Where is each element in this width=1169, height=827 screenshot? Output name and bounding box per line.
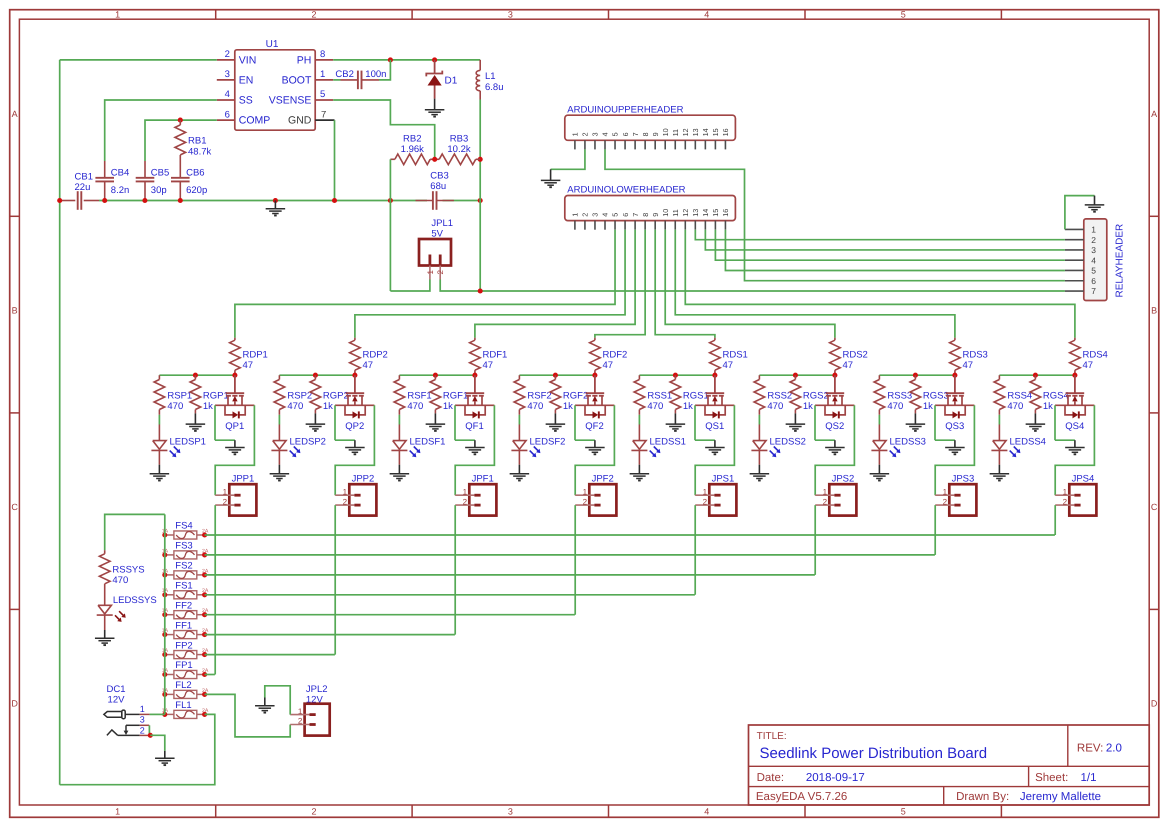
svg-text:LEDSS4: LEDSS4 xyxy=(1010,437,1046,448)
svg-text:RDF2: RDF2 xyxy=(603,350,628,361)
JPS2 pin 1 xyxy=(815,494,834,496)
svg-text:2: 2 xyxy=(223,497,228,506)
svg-text:Date:: Date: xyxy=(757,772,785,784)
wire fuse FS2 output xyxy=(205,574,815,576)
fuse FF1 xyxy=(165,634,174,636)
wire fuse FP2 output xyxy=(205,654,335,656)
wire QS4 source to ground xyxy=(1054,405,1056,440)
ground JPL2 xyxy=(264,698,266,706)
wire header pin8 to RDF2 xyxy=(595,230,645,338)
svg-text:1k: 1k xyxy=(683,401,693,412)
header pin 9 xyxy=(654,140,656,149)
node fuse FP2 pin2 xyxy=(202,652,207,657)
ground LEDSF2 xyxy=(518,465,520,474)
node PH-CB2 junction xyxy=(388,57,393,62)
svg-text:47: 47 xyxy=(1083,360,1094,371)
wire relay pin1 to ground xyxy=(1065,196,1095,230)
transistor QF2 NMOS xyxy=(594,375,596,393)
U1 pin 8 PH xyxy=(315,59,333,61)
ground RGS3 xyxy=(914,413,916,424)
header pin 12 xyxy=(684,140,686,149)
wire QP1 drain to JPP1 pin1 xyxy=(215,405,254,495)
svg-text:DC1: DC1 xyxy=(106,684,125,695)
resistor RSS2 470 xyxy=(758,375,760,379)
wire BOOT to CB2 xyxy=(333,79,340,81)
ground QF1 source xyxy=(474,440,476,447)
svg-text:10.2k: 10.2k xyxy=(447,144,470,155)
JPS3 pin 2 xyxy=(935,504,954,506)
svg-text:4: 4 xyxy=(225,89,230,100)
svg-text:LEDSP1: LEDSP1 xyxy=(170,437,206,448)
header pin 2 xyxy=(584,221,586,230)
header pin 4 xyxy=(604,221,606,230)
svg-text:12: 12 xyxy=(681,209,690,217)
U1 pin 2 VIN xyxy=(217,59,235,61)
svg-text:Drawn By:: Drawn By: xyxy=(956,791,1009,803)
svg-text:470: 470 xyxy=(112,575,128,586)
connector ARDUINOUPPERHEADER xyxy=(565,115,736,140)
svg-text:RGP2: RGP2 xyxy=(323,391,349,402)
LED LEDSF1 xyxy=(393,441,406,450)
svg-text:12V: 12V xyxy=(108,695,126,706)
wire VSENSE to divider xyxy=(333,100,435,159)
svg-text:8.2n: 8.2n xyxy=(111,185,130,196)
transistor QP2 NMOS xyxy=(354,375,356,393)
node fuse FS4 pin2 xyxy=(202,532,207,537)
node fuse FS1 pin2 xyxy=(202,592,207,597)
svg-text:22u: 22u xyxy=(75,182,91,193)
svg-text:3: 3 xyxy=(140,715,145,725)
svg-text:5: 5 xyxy=(901,806,906,816)
svg-text:QS2: QS2 xyxy=(825,421,844,432)
svg-text:Jeremy Mallette: Jeremy Mallette xyxy=(1020,791,1101,803)
header pin 3 xyxy=(594,140,596,149)
fuse FP1 xyxy=(165,674,174,676)
resistor RB3 10.2k xyxy=(439,154,476,165)
svg-text:FP2: FP2 xyxy=(175,640,192,651)
svg-text:RB2: RB2 xyxy=(403,134,421,145)
node gate-RG junction xyxy=(673,373,678,378)
LED LEDSS4 xyxy=(993,441,1006,450)
ground RGS2 xyxy=(794,413,796,424)
svg-text:13: 13 xyxy=(691,209,700,217)
transistor QF1 NMOS xyxy=(474,375,476,393)
wire RSS1 to LEDSS1 xyxy=(638,415,640,425)
svg-text:2: 2 xyxy=(225,49,230,60)
svg-text:48.7k: 48.7k xyxy=(188,146,211,157)
svg-text:A: A xyxy=(12,109,18,119)
wire COMP to CB5 xyxy=(145,120,217,161)
svg-text:5: 5 xyxy=(611,132,620,136)
node fuse FS2 pin2 xyxy=(202,572,207,577)
svg-text:47: 47 xyxy=(243,360,254,371)
wire header pin12 to RDS4 xyxy=(685,230,1075,338)
LED LEDSP2 xyxy=(273,441,286,450)
JPF2 pin 2 xyxy=(575,504,594,506)
wire VIN xyxy=(60,59,217,61)
svg-text:LEDSF2: LEDSF2 xyxy=(530,437,566,448)
ground bus symbol xyxy=(274,201,276,209)
ground LEDSP2 xyxy=(278,465,280,474)
wire fuse FS4 output xyxy=(205,534,1055,536)
LED LEDSF2 xyxy=(513,441,526,450)
wire fuse FL2 to JPL2 xyxy=(205,694,291,737)
svg-text:2018-09-17: 2018-09-17 xyxy=(806,772,865,784)
wire QP2 source to ground xyxy=(334,405,336,440)
JPL2 pin 1 xyxy=(290,714,309,716)
svg-text:FS1: FS1 xyxy=(175,581,192,592)
resistor RSSYS 470 xyxy=(104,550,106,554)
JPL1 pin 1 xyxy=(428,255,431,266)
JPP2 pin 2 xyxy=(335,504,354,506)
svg-text:2: 2 xyxy=(1091,235,1096,245)
wire JPL1 pin2 to 5V line xyxy=(440,280,480,292)
svg-text:FS4: FS4 xyxy=(175,521,192,532)
svg-text:4: 4 xyxy=(704,9,709,19)
ground relay header xyxy=(1094,196,1096,205)
DC1 pin 2 sleeve xyxy=(107,730,118,736)
wire LEDSP2 cathode xyxy=(278,450,280,464)
svg-text:1: 1 xyxy=(571,132,580,136)
svg-text:7: 7 xyxy=(1091,286,1096,296)
svg-text:VIN: VIN xyxy=(239,55,257,67)
svg-text:RSSYS: RSSYS xyxy=(112,565,144,576)
resistor RGS2 1k xyxy=(794,375,796,379)
svg-text:RGF2: RGF2 xyxy=(563,391,588,402)
svg-text:2: 2 xyxy=(463,497,468,506)
wire JPL1 pin1 to gnd line xyxy=(390,280,430,292)
transistor QP1 NMOS xyxy=(234,375,236,393)
svg-text:JPL1: JPL1 xyxy=(431,218,453,229)
header pin 10 xyxy=(664,221,666,230)
svg-text:1: 1 xyxy=(140,704,145,714)
header pin 1 xyxy=(574,221,576,230)
resistor RDF1 47 xyxy=(474,338,476,341)
ground QF2 source xyxy=(594,440,596,447)
node PH-D1 junction xyxy=(432,57,437,62)
header pin 14 xyxy=(704,140,706,149)
wire header pin7 to RDF1 xyxy=(475,230,635,338)
svg-text:1k: 1k xyxy=(803,401,813,412)
ground QS3 source xyxy=(954,440,956,447)
svg-text:15: 15 xyxy=(711,128,720,136)
ground RGS4 xyxy=(1034,413,1036,424)
svg-text:8: 8 xyxy=(320,49,325,60)
frame row ticks left/right xyxy=(10,215,20,217)
svg-text:1k: 1k xyxy=(1043,401,1053,412)
RELAYHEADER pin 7 xyxy=(1065,290,1084,292)
wire JPS3 pin2 to fuse xyxy=(934,505,936,555)
svg-text:QP2: QP2 xyxy=(345,421,364,432)
svg-text:11: 11 xyxy=(671,129,680,136)
svg-text:A: A xyxy=(1151,109,1157,119)
wire header pin9 to RDS1 xyxy=(655,230,715,338)
svg-text:16: 16 xyxy=(721,209,730,217)
svg-text:C: C xyxy=(1151,502,1158,512)
node fuse FF2 pin1 xyxy=(162,612,167,617)
ground LEDSS3 xyxy=(878,465,880,474)
svg-text:6: 6 xyxy=(225,109,230,120)
svg-text:PH: PH xyxy=(297,55,312,67)
svg-text:LEDSF1: LEDSF1 xyxy=(410,437,446,448)
svg-text:47: 47 xyxy=(603,360,614,371)
header pin 6 xyxy=(624,221,626,230)
svg-text:1.96k: 1.96k xyxy=(401,144,424,155)
U1 pin 1 BOOT xyxy=(315,79,333,81)
svg-text:4: 4 xyxy=(1091,255,1096,265)
svg-text:1: 1 xyxy=(115,9,120,19)
wire DC1 pin1 to fuse column xyxy=(150,713,165,715)
ground RGS1 xyxy=(674,413,676,424)
svg-text:47: 47 xyxy=(843,360,854,371)
svg-text:RSP2: RSP2 xyxy=(287,391,312,402)
fuse FP2 xyxy=(165,654,174,656)
wire lower header pin14 to relay pin3 xyxy=(705,230,1065,250)
ground upper header xyxy=(550,169,552,180)
svg-text:2: 2 xyxy=(703,497,708,506)
node fuse FP2 pin1 xyxy=(162,652,167,657)
svg-text:2: 2 xyxy=(343,497,348,506)
svg-text:EN: EN xyxy=(239,75,254,87)
svg-text:1: 1 xyxy=(115,806,120,816)
svg-text:1/1: 1/1 xyxy=(1081,772,1097,784)
resistor RDP1 47 xyxy=(234,338,236,341)
header pin 3 xyxy=(594,221,596,230)
resistor RDS1 47 xyxy=(714,338,716,341)
svg-text:SS: SS xyxy=(239,95,253,107)
wire lower header pin15 to relay pin4 xyxy=(715,230,1065,261)
node gate-RD junction xyxy=(592,373,597,378)
wire fuse FP1 output xyxy=(205,674,215,676)
node gate-RG junction xyxy=(193,373,198,378)
svg-text:EasyEDA V5.7.26: EasyEDA V5.7.26 xyxy=(756,791,847,803)
svg-text:RB1: RB1 xyxy=(188,136,206,147)
wire 12V rail left vertical xyxy=(59,60,61,785)
transistor QS4 NMOS xyxy=(1074,375,1076,393)
svg-text:U1: U1 xyxy=(266,39,279,50)
svg-text:ARDUINOUPPERHEADER: ARDUINOUPPERHEADER xyxy=(567,104,683,115)
svg-text:8: 8 xyxy=(641,132,650,136)
capacitor CB3 68u xyxy=(416,200,433,202)
wire RB2 to ground bus and JPL1 gnd xyxy=(389,159,391,200)
resistor RSF1 470 xyxy=(398,375,400,379)
svg-text:LEDSS1: LEDSS1 xyxy=(650,437,686,448)
svg-text:5: 5 xyxy=(320,89,325,100)
resistor RDS2 47 xyxy=(834,338,836,341)
svg-text:RDF1: RDF1 xyxy=(483,350,508,361)
header pin 7 xyxy=(634,140,636,149)
svg-text:1k: 1k xyxy=(323,401,333,412)
header pin 8 xyxy=(644,221,646,230)
wire QS1 source to ground xyxy=(694,405,696,440)
wire gate bus QP1 xyxy=(159,374,235,376)
resistor RSP2 470 xyxy=(278,375,280,379)
svg-text:D: D xyxy=(1151,698,1158,708)
wire RSS4 to LEDSS4 xyxy=(998,415,1000,425)
node fuse FP1 pin1 xyxy=(162,672,167,677)
svg-text:16: 16 xyxy=(721,128,730,136)
svg-text:1: 1 xyxy=(703,487,708,496)
svg-text:2: 2 xyxy=(581,132,590,136)
node fuse FL1 pin1 xyxy=(162,712,167,717)
wire JPS4 pin2 to fuse xyxy=(1054,505,1056,535)
svg-text:FL2: FL2 xyxy=(175,680,191,691)
wire QS2 source to ground xyxy=(814,405,816,440)
capacitor CB1 22u xyxy=(60,200,76,202)
svg-text:B: B xyxy=(12,306,18,316)
LED LEDSP1 xyxy=(153,441,166,450)
svg-text:470: 470 xyxy=(647,401,663,412)
LED LEDSS2 xyxy=(753,441,766,450)
ground LEDSP1 xyxy=(158,465,160,474)
svg-text:FL1: FL1 xyxy=(175,700,191,711)
wire RSF1 to LEDSF1 xyxy=(398,415,400,425)
U1 pin 7 GND xyxy=(315,119,334,121)
wire DC1 pin2 to ground xyxy=(150,735,165,751)
svg-text:8: 8 xyxy=(641,213,650,217)
node ground bus junction xyxy=(142,198,147,203)
svg-text:1: 1 xyxy=(1091,225,1096,235)
svg-text:RSS1: RSS1 xyxy=(647,391,672,402)
svg-text:3: 3 xyxy=(225,69,230,80)
svg-text:2: 2 xyxy=(583,497,588,506)
wire 5V output rail xyxy=(479,100,481,292)
wire header pin10 to RDS2 xyxy=(665,230,835,338)
U1 pin 6 COMP xyxy=(217,119,235,121)
svg-text:470: 470 xyxy=(407,401,423,412)
resistor RGF1 1k xyxy=(434,375,436,379)
svg-text:4: 4 xyxy=(601,213,610,217)
header pin 12 xyxy=(684,221,686,230)
svg-text:1: 1 xyxy=(223,487,228,496)
wire lower header pin13 to relay pin2 xyxy=(695,230,1065,240)
wire QP2 drain to JPP2 pin1 xyxy=(335,405,374,495)
svg-text:47: 47 xyxy=(723,360,734,371)
wire gate bus QF1 xyxy=(399,374,475,376)
transistor QS2 NMOS xyxy=(834,375,836,393)
svg-text:68u: 68u xyxy=(430,181,446,192)
svg-text:6: 6 xyxy=(621,132,630,136)
header pin 7 xyxy=(634,221,636,230)
U1 pin 4 SS xyxy=(217,99,235,101)
wire QP1 source to ground xyxy=(214,405,216,440)
wire fused 12V column xyxy=(164,514,166,714)
svg-text:3: 3 xyxy=(1091,245,1096,255)
svg-text:3: 3 xyxy=(591,213,600,217)
svg-text:RGS3: RGS3 xyxy=(923,391,949,402)
header pin 13 xyxy=(694,140,696,149)
node divider junction xyxy=(432,157,437,162)
svg-text:C: C xyxy=(11,502,18,512)
wire JPS2 pin2 to fuse xyxy=(814,505,816,575)
node COMP-RB1 junction xyxy=(178,118,183,123)
JPS4 pin 1 xyxy=(1055,494,1074,496)
wire upper header pin2 to ground xyxy=(551,149,585,169)
wire JPP1 pin2 to fuse xyxy=(214,505,216,674)
RELAYHEADER pin 5 xyxy=(1065,269,1084,271)
ground RGP2 xyxy=(314,413,316,424)
JPL2 pin 2 xyxy=(290,724,309,726)
wire JPP2 pin2 to fuse xyxy=(334,505,336,654)
wire DC1 pin3 to pin2 xyxy=(148,725,150,735)
header pin 13 xyxy=(694,221,696,230)
wire LEDSS3 cathode xyxy=(878,450,880,464)
svg-text:LEDSS2: LEDSS2 xyxy=(770,437,806,448)
JPS4 pin 2 xyxy=(1055,504,1074,506)
resistor RB1 48.7k xyxy=(179,120,181,125)
wire fuse FS3 output xyxy=(205,554,935,556)
svg-text:QS3: QS3 xyxy=(945,421,964,432)
ground QS4 source xyxy=(1074,440,1076,447)
svg-text:12: 12 xyxy=(681,128,690,136)
fuse FS4 xyxy=(165,534,174,536)
svg-text:QS4: QS4 xyxy=(1065,421,1084,432)
svg-text:RGS4: RGS4 xyxy=(1043,391,1069,402)
svg-text:3: 3 xyxy=(508,806,513,816)
svg-text:1: 1 xyxy=(943,487,948,496)
wire QF1 drain to JPF1 pin1 xyxy=(455,405,494,495)
header pin 10 xyxy=(664,140,666,149)
ground RGF1 xyxy=(434,413,436,424)
svg-text:Seedlink Power Distribution Bo: Seedlink Power Distribution Board xyxy=(760,745,988,762)
title block xyxy=(749,725,1150,805)
wire GND pin to bus xyxy=(334,120,336,200)
svg-text:1k: 1k xyxy=(443,401,453,412)
JPS1 pin 1 xyxy=(695,494,714,496)
node fuse FS3 pin2 xyxy=(202,552,207,557)
resistor RDF2 47 xyxy=(594,338,596,341)
RELAYHEADER pin 2 xyxy=(1065,239,1084,241)
svg-text:2: 2 xyxy=(298,717,303,726)
svg-text:10: 10 xyxy=(661,128,670,136)
node gate-RG junction xyxy=(433,373,438,378)
wire gate bus QF2 xyxy=(519,374,595,376)
node fuse FL2 pin2 xyxy=(202,692,207,697)
wire gate bus QS1 xyxy=(639,374,715,376)
wire PH line xyxy=(333,59,480,61)
wire SS to CB4 xyxy=(105,100,217,161)
svg-text:4: 4 xyxy=(704,806,709,816)
ground LEDSF1 xyxy=(398,465,400,474)
svg-text:2: 2 xyxy=(436,270,445,275)
JPS2 pin 2 xyxy=(815,504,834,506)
wire ground bus xyxy=(99,200,427,202)
RELAYHEADER pin 4 xyxy=(1065,259,1084,261)
svg-text:RSS4: RSS4 xyxy=(1007,391,1032,402)
JPL1 pin 2 xyxy=(439,255,442,266)
node 5V junction xyxy=(478,288,483,293)
svg-text:FP1: FP1 xyxy=(175,660,192,671)
svg-text:RGS2: RGS2 xyxy=(803,391,829,402)
node ground bus junction xyxy=(332,198,337,203)
svg-text:RDP2: RDP2 xyxy=(363,350,388,361)
resistor RGP1 1k xyxy=(194,375,196,379)
svg-text:1: 1 xyxy=(343,487,348,496)
ground QP2 source xyxy=(354,440,356,447)
wire QS3 source to ground xyxy=(934,405,936,440)
header pin 16 xyxy=(724,221,726,230)
svg-text:CB6: CB6 xyxy=(186,167,204,178)
header pin 14 xyxy=(704,221,706,230)
svg-text:D1: D1 xyxy=(445,75,458,86)
wire lower header pin16 to relay pin5 xyxy=(725,230,1064,271)
wire RSS2 to LEDSS2 xyxy=(758,415,760,425)
capacitor CB4 8.2n xyxy=(104,161,106,178)
resistor RDS4 47 xyxy=(1074,338,1076,341)
node gate-RG junction xyxy=(793,373,798,378)
ground QS2 source xyxy=(834,440,836,447)
resistor RSS4 470 xyxy=(998,375,1000,379)
